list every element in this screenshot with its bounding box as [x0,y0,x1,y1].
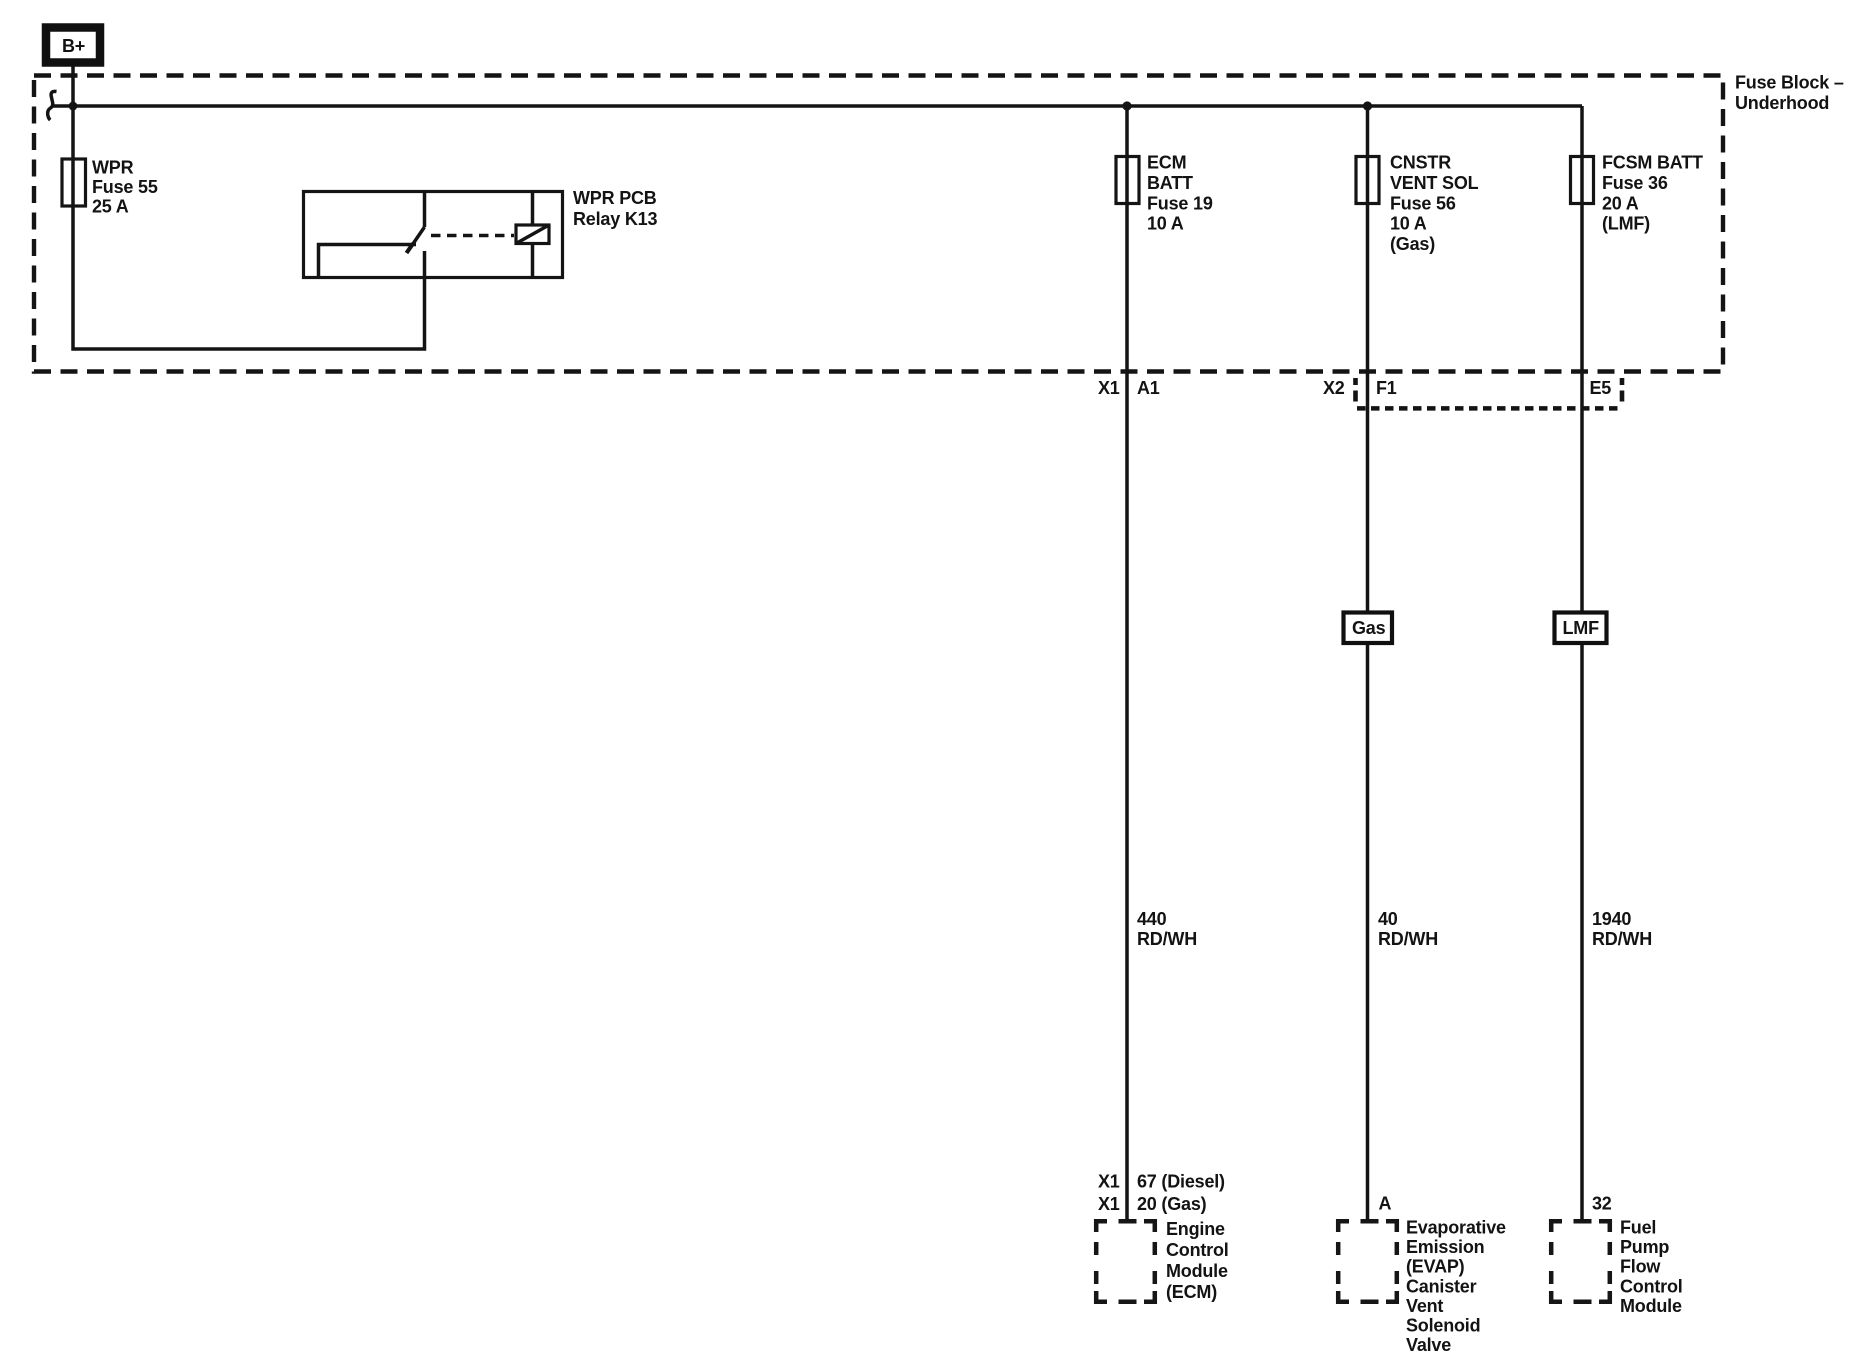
junction dot at ECM branch [1122,101,1131,110]
svg-text:32: 32 [1592,1194,1612,1214]
svg-text:X2: X2 [1323,378,1345,398]
fuse ECM BATT Fuse 19 [1116,157,1139,204]
wire CNSTR VENT SOL feed (bus to EVAP valve) [1366,106,1370,1222]
svg-text:WPR PCBRelay K13: WPR PCBRelay K13 [573,188,657,229]
svg-text:Gas: Gas [1352,618,1386,638]
wire FCSM BATT feed (bus corner down to FPFCM) [1580,106,1584,1222]
relay coil diagonal [516,225,549,244]
relay common terminal from top [423,192,427,228]
fuse block underhood boundary (dashed box) [34,76,1723,372]
svg-text:X1: X1 [1098,1172,1120,1192]
relay coil return to bottom [531,244,535,278]
connector Fuel Pump Flow Control Module (dashed box) [1551,1221,1610,1302]
fuse WPR Fuse 55 [62,159,86,206]
tag Gas [1344,613,1393,644]
junction dot at CNSTR branch [1363,101,1372,110]
connector EVAP canister vent solenoid valve (dashed box) [1338,1221,1397,1302]
power symbol B+ [46,28,100,63]
inline connector dotted bottom edge [1357,406,1619,411]
svg-text:E5: E5 [1590,378,1612,398]
svg-text:X1: X1 [1098,378,1120,398]
fuse CNSTR VENT SOL Fuse 56 [1356,157,1379,204]
connector ECM (dashed box) [1096,1221,1155,1302]
relay coil linkage (dashed) [431,234,514,238]
relay NO contact L-wire [319,245,417,278]
svg-text:67 (Diesel): 67 (Diesel) [1137,1172,1225,1192]
relay coil feed from top [531,192,535,226]
splice hook at bus origin [48,91,57,120]
svg-text:A1: A1 [1137,378,1160,398]
svg-text:A: A [1379,1194,1392,1214]
svg-text:X1: X1 [1098,1194,1120,1214]
wire from B+ down through WPR fuse and to relay pivot [73,67,425,350]
inline connector dotted stub left [1353,378,1358,402]
relay coil box [516,225,549,244]
wire ECM BATT feed (bus to ECM) [1125,106,1129,1222]
relay switch blade [411,227,425,248]
fuse FCSM BATT Fuse 36 [1571,157,1594,204]
tag LMF [1555,613,1607,644]
junction dot at B+ drop [69,102,78,111]
inline connector dotted stub right [1620,378,1625,402]
relay blade contact tick [407,244,414,254]
svg-text:B+: B+ [62,36,85,56]
svg-text:Fuse Block –Underhood: Fuse Block –Underhood [1735,73,1844,114]
svg-text:LMF: LMF [1563,618,1600,638]
svg-text:20 (Gas): 20 (Gas) [1137,1194,1207,1214]
bus wire from B+ hook across fuse block [51,104,1582,108]
relay WPR PCB K13 outline [304,192,563,278]
svg-text:F1: F1 [1376,378,1397,398]
